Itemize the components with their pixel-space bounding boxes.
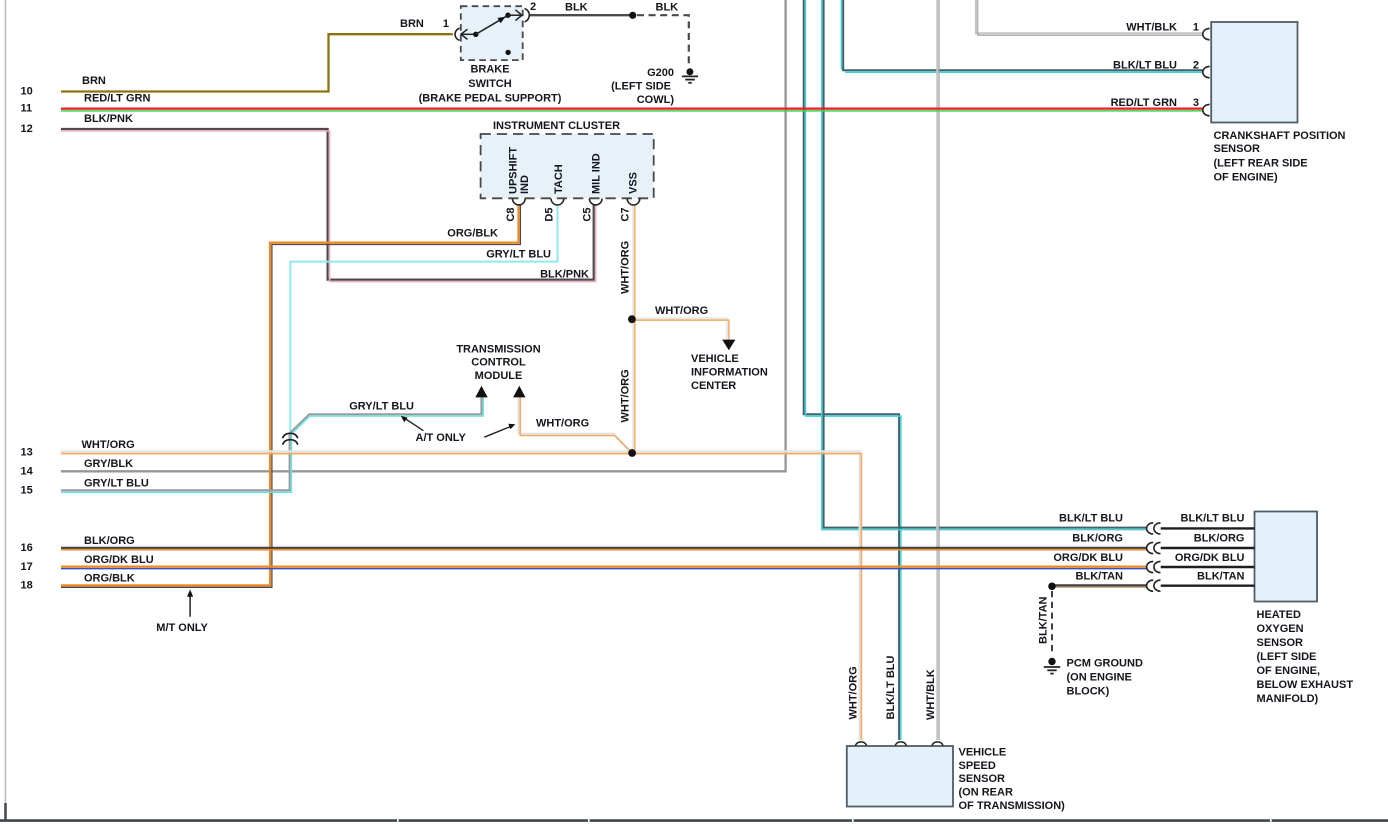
- brake switch pin 2 arrow: [508, 10, 522, 21]
- svg-text:C7: C7: [620, 208, 632, 222]
- svg-text:GRY/BLK: GRY/BLK: [84, 458, 133, 470]
- svg-text:16: 16: [21, 542, 33, 554]
- svg-text:C5: C5: [581, 208, 593, 222]
- svg-text:IND: IND: [519, 175, 531, 194]
- speed sensor pin 3 connector arc: [932, 742, 943, 746]
- svg-text:GRY/LT BLU: GRY/LT BLU: [486, 249, 551, 261]
- label VEHICLE INFORMATION CENTER: [691, 353, 768, 392]
- svg-text:HEATED: HEATED: [1257, 609, 1301, 621]
- svg-text:14: 14: [21, 466, 34, 478]
- PCM ground symbol: [1044, 658, 1060, 674]
- svg-text:12: 12: [21, 123, 33, 135]
- svg-text:(LEFT SIDE: (LEFT SIDE: [1257, 651, 1317, 663]
- svg-text:BLK/LT BLU: BLK/LT BLU: [885, 655, 897, 719]
- svg-text:MODULE: MODULE: [475, 370, 523, 382]
- svg-text:VSS: VSS: [628, 172, 640, 194]
- dashed BLK/TAN wire to PCM ground: [1051, 591, 1053, 654]
- svg-text:ORG/DK BLU: ORG/DK BLU: [1175, 552, 1245, 564]
- wire BLK/ORG connector to oxygen sensor: [1161, 547, 1255, 549]
- TCM arrowhead left: [475, 386, 487, 398]
- label CRANKSHAFT POSITION SENSOR (LEFT REAR SIDE OF ENGINE): [1214, 130, 1346, 184]
- wire GRY/LT BLU from instrument cluster pin D5: [290, 205, 557, 444]
- svg-text:WHT/ORG: WHT/ORG: [536, 418, 589, 430]
- A/T ONLY arrow to GRY/LT BLU wire: [401, 416, 424, 431]
- wire 12 BLK/PNK to instrument cluster pin C5: [61, 129, 596, 282]
- A/T ONLY arrow to WHT/ORG wire: [484, 424, 515, 438]
- svg-text:GRY/LT BLU: GRY/LT BLU: [349, 401, 414, 413]
- wire 18 ORG/BLK to instrument cluster pin C8: [61, 205, 520, 587]
- arrowhead to vehicle information center: [722, 340, 735, 351]
- svg-text:MANIFOLD): MANIFOLD): [1257, 693, 1319, 705]
- svg-text:(BRAKE PEDAL SUPPORT): (BRAKE PEDAL SUPPORT): [419, 93, 562, 105]
- brake switch pin 1 arrow: [461, 29, 476, 39]
- crossover squiggle on GRY/LT BLU wire: [283, 433, 298, 444]
- brake switch SW box: [461, 6, 523, 60]
- svg-text:INFORMATION: INFORMATION: [691, 367, 768, 379]
- brake switch pin 2 connector arc: [525, 9, 530, 22]
- label PCM GROUND (ON ENGINE BLOCK): [1067, 658, 1143, 698]
- wire WHT/BLK to crankshaft position sensor pin 1 (from top edge): [976, 0, 1203, 35]
- inline connector arcs BLK/LT BLU row: [1147, 523, 1161, 534]
- svg-text:WHT/ORG: WHT/ORG: [847, 666, 859, 719]
- svg-text:ORG/DK BLU: ORG/DK BLU: [84, 554, 154, 566]
- M/T ONLY arrow: [187, 590, 193, 617]
- inline connector arcs BLK/TAN row: [1147, 580, 1161, 591]
- dashed BLK wire to G200: [637, 15, 689, 64]
- svg-text:(LEFT SIDE: (LEFT SIDE: [611, 81, 671, 93]
- svg-text:WHT/ORG: WHT/ORG: [620, 241, 632, 294]
- svg-text:OF ENGINE,: OF ENGINE,: [1257, 665, 1321, 677]
- svg-text:WHT/BLK: WHT/BLK: [925, 669, 937, 720]
- svg-text:13: 13: [21, 447, 33, 459]
- svg-text:17: 17: [21, 561, 33, 573]
- svg-text:TRANSMISSION: TRANSMISSION: [456, 344, 540, 356]
- svg-text:WHT/ORG: WHT/ORG: [655, 305, 708, 317]
- svg-text:SENSOR: SENSOR: [1214, 143, 1261, 155]
- svg-text:(LEFT REAR SIDE: (LEFT REAR SIDE: [1214, 158, 1308, 170]
- svg-text:BLK/PNK: BLK/PNK: [84, 113, 133, 125]
- wire BLK/LT BLU connector to oxygen sensor: [1161, 527, 1255, 529]
- label VEHICLE SPEED SENSOR (ON REAR OF TRANSMISSION): [959, 746, 1066, 812]
- svg-text:SENSOR: SENSOR: [959, 773, 1006, 785]
- wire BLK/LT BLU to heated oxygen sensor (from top edge): [822, 0, 1147, 530]
- svg-text:CONTROL: CONTROL: [471, 357, 526, 369]
- svg-text:BLOCK): BLOCK): [1067, 686, 1110, 698]
- svg-text:RED/LT GRN: RED/LT GRN: [1111, 97, 1177, 109]
- svg-text:BLK/LT BLU: BLK/LT BLU: [1059, 513, 1123, 525]
- wire 13 WHT/ORG to vehicle speed sensor pin 1: [61, 451, 861, 740]
- wire BLK/TAN connector to oxygen sensor: [1161, 585, 1255, 587]
- wire BLK/TAN from PCM ground junction to heated oxygen sensor connector: [1052, 585, 1147, 587]
- svg-text:G200: G200: [647, 67, 674, 79]
- svg-text:(ON ENGINE: (ON ENGINE: [1067, 672, 1132, 684]
- wire 10 BRN to brake switch pin 1: [61, 34, 453, 91]
- speed sensor pin 1 connector arc: [855, 742, 866, 746]
- svg-text:SENSOR: SENSOR: [1257, 637, 1304, 649]
- svg-text:PCM GROUND: PCM GROUND: [1067, 658, 1143, 670]
- svg-text:2: 2: [1193, 59, 1199, 71]
- bottom page border: [0, 819, 1388, 822]
- instrument cluster pin arcs C8 D5 C5 C7: [513, 199, 640, 205]
- svg-text:BLK/TAN: BLK/TAN: [1038, 596, 1050, 644]
- svg-text:WHT/ORG: WHT/ORG: [82, 439, 135, 451]
- svg-text:CRANKSHAFT POSITION: CRANKSHAFT POSITION: [1214, 130, 1346, 142]
- label TRANSMISSION CONTROL MODULE: [456, 344, 540, 382]
- wire BLK from brake switch pin 2: [530, 14, 630, 16]
- junction dot BLK: [629, 12, 636, 19]
- svg-text:BLK/TAN: BLK/TAN: [1076, 571, 1124, 583]
- vehicle speed sensor box: [847, 746, 953, 807]
- junction dot WHT/ORG upper: [628, 315, 636, 323]
- svg-text:BELOW EXHAUST: BELOW EXHAUST: [1257, 679, 1354, 691]
- brake switch blade with arrowhead: [476, 16, 507, 34]
- inline connector arcs ORG/DK BLU row: [1147, 561, 1161, 572]
- svg-text:BLK/LT BLU: BLK/LT BLU: [1113, 59, 1177, 71]
- wire 17 ORG/DK BLU to heated oxygen sensor connector: [61, 567, 1147, 569]
- junction dot BLK/TAN: [1048, 583, 1056, 591]
- svg-text:11: 11: [21, 103, 33, 115]
- left page border: [5, 0, 7, 821]
- wire BLK/LT BLU to vehicle speed sensor pin 2 (from top edge): [804, 0, 901, 740]
- svg-text:A/T ONLY: A/T ONLY: [416, 432, 467, 444]
- svg-text:ORG/BLK: ORG/BLK: [84, 573, 135, 585]
- brake switch lower contact dot: [505, 50, 510, 55]
- svg-text:CENTER: CENTER: [691, 380, 736, 392]
- wire 16 BLK/ORG to heated oxygen sensor connector: [61, 548, 1147, 550]
- heated oxygen sensor box: [1255, 512, 1318, 602]
- svg-text:BLK: BLK: [565, 1, 588, 13]
- crankshaft sensor pin 3 connector arc: [1203, 104, 1210, 115]
- svg-text:RED/LT GRN: RED/LT GRN: [84, 93, 150, 105]
- svg-text:ORG/DK BLU: ORG/DK BLU: [1053, 552, 1123, 564]
- svg-text:C8: C8: [505, 208, 517, 222]
- svg-text:WHT/ORG: WHT/ORG: [620, 369, 632, 422]
- svg-text:BLK/LT BLU: BLK/LT BLU: [1181, 513, 1245, 525]
- svg-text:M/T ONLY: M/T ONLY: [156, 622, 208, 634]
- label BRAKE SWITCH (BRAKE PEDAL SUPPORT): [419, 64, 562, 105]
- svg-text:BLK/ORG: BLK/ORG: [1072, 533, 1123, 545]
- svg-text:BLK/PNK: BLK/PNK: [540, 269, 589, 281]
- svg-text:15: 15: [21, 485, 33, 497]
- svg-text:INSTRUMENT CLUSTER: INSTRUMENT CLUSTER: [493, 120, 620, 132]
- svg-text:TACH: TACH: [553, 164, 565, 194]
- junction dot WHT/ORG lower: [628, 449, 636, 457]
- wire 15 GRY/LT BLU to transmission control module: [61, 398, 483, 493]
- svg-text:SPEED: SPEED: [959, 760, 996, 772]
- wire ORG/DK BLU connector to oxygen sensor: [1161, 566, 1255, 568]
- svg-text:18: 18: [21, 580, 33, 592]
- svg-text:VEHICLE: VEHICLE: [959, 746, 1007, 758]
- svg-text:OF ENGINE): OF ENGINE): [1214, 172, 1279, 184]
- TCM arrowhead right: [513, 386, 525, 398]
- svg-text:2: 2: [530, 1, 536, 13]
- svg-text:10: 10: [21, 86, 33, 98]
- ground G200 symbol: [682, 68, 698, 83]
- svg-text:BRN: BRN: [82, 75, 106, 87]
- svg-text:WHT/BLK: WHT/BLK: [1126, 22, 1177, 34]
- svg-text:BLK: BLK: [656, 1, 679, 13]
- svg-text:1: 1: [1193, 22, 1199, 34]
- svg-text:3: 3: [1193, 97, 1199, 109]
- wire WHT/ORG branch to vehicle information center: [635, 318, 729, 339]
- svg-text:OXYGEN: OXYGEN: [1257, 623, 1304, 635]
- svg-text:BRAKE: BRAKE: [470, 64, 509, 76]
- svg-text:VEHICLE: VEHICLE: [691, 353, 739, 365]
- svg-text:COWL): COWL): [637, 94, 675, 106]
- wire 11 RED/LT GRN to crankshaft position sensor pin 3: [61, 109, 1203, 111]
- svg-text:ORG/BLK: ORG/BLK: [447, 228, 498, 240]
- wire GRY/BLK row 14 vertical+horizontal (left edge to top edge): [61, 0, 786, 471]
- svg-text:D5: D5: [543, 208, 555, 222]
- instrument cluster box: [481, 134, 654, 198]
- svg-text:MIL IND: MIL IND: [590, 153, 602, 194]
- svg-text:(ON REAR: (ON REAR: [959, 787, 1013, 799]
- brake switch pin 2 contact dot: [505, 13, 510, 18]
- svg-text:SWITCH: SWITCH: [468, 78, 511, 90]
- speed sensor pin 2 connector arc: [895, 742, 906, 746]
- wire WHT/BLK to vehicle speed sensor pin 3 (from top edge): [937, 0, 939, 740]
- brake switch pin 1 connector arc: [455, 28, 460, 40]
- inline connector arcs BLK/ORG row: [1147, 542, 1161, 553]
- svg-text:BRN: BRN: [400, 18, 424, 30]
- wire WHT/ORG from transmission control module to junction: [518, 398, 631, 453]
- crankshaft position sensor box: [1211, 22, 1297, 123]
- svg-text:BLK/ORG: BLK/ORG: [84, 535, 135, 547]
- label HEATED OXYGEN SENSOR (LEFT SIDE OF ENGINE, BELOW EXHAUST MANIFOLD): [1257, 609, 1354, 705]
- crankshaft sensor pin 1 connector arc: [1203, 28, 1210, 39]
- wire WHT/ORG vertical from instrument cluster pin C7: [633, 205, 635, 452]
- crankshaft sensor pin 2 connector arc: [1203, 66, 1210, 77]
- brake switch movable contact dot: [473, 32, 478, 37]
- svg-text:BLK/ORG: BLK/ORG: [1194, 533, 1245, 545]
- svg-text:GRY/LT BLU: GRY/LT BLU: [84, 478, 149, 490]
- wire BLK/LT BLU to crankshaft position sensor pin 2 (from top edge): [841, 0, 1202, 72]
- svg-text:OF TRANSMISSION): OF TRANSMISSION): [959, 800, 1066, 812]
- svg-text:1: 1: [443, 18, 449, 30]
- svg-text:BLK/TAN: BLK/TAN: [1197, 571, 1245, 583]
- label UPSHIFT IND (rotated): [508, 147, 531, 194]
- label G200 (LEFT SIDE COWL): [611, 67, 674, 106]
